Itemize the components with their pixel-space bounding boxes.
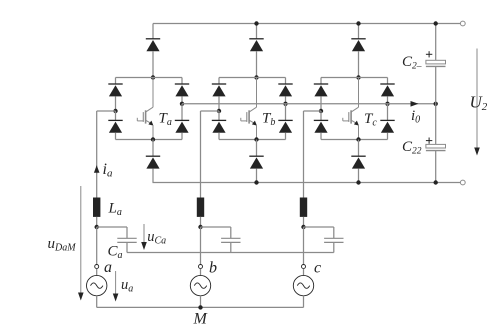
- wire bridge bottom a: [116, 139, 183, 141]
- bottom diode phase c: [351, 156, 365, 168]
- wire node to source c: [303, 269, 305, 276]
- junction cap branch top rail: [434, 21, 438, 25]
- wire lower-right diode to bridge bottom b: [285, 133, 287, 140]
- bridge diode upper-right phase b: [278, 84, 292, 96]
- junction leg c on bottom rail: [356, 180, 360, 184]
- arrow i0: [411, 101, 419, 107]
- node right mid b: [283, 102, 287, 106]
- wire source b to M rail: [200, 296, 202, 308]
- bottom diode phase a: [146, 156, 160, 168]
- wire mid bus to DC midpoint: [182, 103, 436, 105]
- wire upper-right diode to mid c: [387, 96, 389, 103]
- wire top diode to bridge node a: [152, 51, 154, 77]
- wire inductor to junction c: [303, 217, 305, 227]
- wire cap stub down a: [126, 227, 128, 238]
- terminal DC+: [460, 21, 465, 26]
- AC source phase c: [293, 275, 313, 295]
- inductor La: [93, 198, 100, 217]
- wire lower diode to bottom rail b: [256, 169, 258, 183]
- wire emitter to lower diode c: [358, 140, 360, 157]
- transistor Tc (IGBT): [343, 78, 359, 140]
- bridge diode upper-left phase c: [314, 84, 328, 96]
- wire left mid to feed c: [304, 110, 322, 112]
- junction source b on M rail: [198, 305, 202, 309]
- wire left branch upper stub c: [320, 78, 322, 85]
- AC source phase b: [190, 275, 210, 295]
- wire right branch upper stub a: [181, 78, 183, 85]
- inductor Lc: [300, 198, 307, 217]
- AC source phase a: [87, 275, 107, 295]
- svg-text:c: c: [314, 260, 321, 277]
- bridge diode lower-right phase c: [380, 120, 394, 132]
- wire cap to neutral bus b: [230, 242, 232, 252]
- node left mid a: [113, 109, 117, 113]
- filter capacitor Cc: [324, 238, 343, 242]
- capacitor C21: [426, 51, 446, 66]
- bridge diode lower-right phase b: [278, 120, 292, 132]
- wire lower diode to bottom rail a: [152, 169, 154, 183]
- wire emitter to lower diode a: [152, 140, 154, 157]
- wire junction to node a: [96, 227, 98, 264]
- top diode phase b: [249, 39, 263, 51]
- node emitter b: [254, 137, 258, 141]
- node b (input terminal): [199, 265, 203, 269]
- node bridge top a: [151, 75, 155, 79]
- wire feed vertical b: [200, 111, 202, 198]
- junction cap branch bottom rail: [434, 180, 438, 184]
- junction leg c on top rail: [356, 21, 360, 25]
- wire right mid to lower diode c: [387, 104, 389, 121]
- wire lower-left diode to bridge bottom a: [115, 133, 117, 140]
- wire inductor to junction a: [96, 217, 98, 227]
- node filter junction c: [301, 225, 305, 229]
- wire right branch upper stub c: [387, 78, 389, 85]
- top diode phase a: [146, 39, 160, 51]
- wire left branch upper stub b: [218, 78, 220, 85]
- node emitter c: [356, 137, 360, 141]
- wire left branch upper stub a: [115, 78, 117, 85]
- wire lower-right diode to bridge bottom a: [181, 133, 183, 140]
- wire cap stub horizontal a: [97, 226, 127, 228]
- wire feed vertical a: [96, 111, 98, 198]
- node bridge top b: [254, 75, 258, 79]
- junction leg b on top rail: [254, 21, 258, 25]
- wire left mid to lower diode a: [115, 111, 117, 121]
- bridge diode upper-left phase b: [212, 84, 226, 96]
- node right mid c: [385, 102, 389, 106]
- wire right branch upper stub b: [285, 78, 287, 85]
- terminal DC-: [460, 180, 465, 185]
- voltage arrow uCa: [141, 224, 147, 250]
- transistor Ta (IGBT): [137, 78, 153, 140]
- wire top diode to bridge node b: [256, 51, 258, 77]
- wire upper-left diode to mid c: [320, 96, 322, 111]
- wire cap stub horizontal c: [304, 226, 334, 228]
- wire left mid to feed b: [201, 110, 220, 112]
- filter capacitor Cb: [221, 238, 240, 242]
- wire lower diode to bottom rail c: [358, 169, 360, 183]
- wire top DC+ rail: [153, 23, 460, 25]
- bridge diode lower-left phase c: [314, 120, 328, 132]
- node left mid b: [217, 109, 221, 113]
- wire leg c rail to top diode: [358, 24, 360, 40]
- wire lower-right diode to bridge bottom c: [387, 133, 389, 140]
- bridge diode lower-left phase b: [212, 120, 226, 132]
- wire junction to node c: [303, 227, 305, 264]
- inductor Lb: [197, 198, 204, 217]
- wire emitter to lower diode b: [256, 140, 258, 157]
- wire C22 to bottom rail: [435, 151, 437, 183]
- wire right mid to lower diode b: [285, 104, 287, 121]
- svg-text:a: a: [104, 259, 112, 276]
- node DC midpoint: [434, 102, 438, 106]
- wire source a to M rail: [96, 296, 98, 308]
- node filter junction a: [95, 225, 99, 229]
- wire node to source a: [96, 269, 98, 276]
- junction leg b on bottom rail: [254, 180, 258, 184]
- wire left mid to lower diode c: [320, 111, 322, 121]
- wire inductor to junction b: [200, 217, 202, 227]
- wire source c to M rail: [303, 296, 305, 308]
- wire top diode to bridge node c: [358, 51, 360, 77]
- wire bridge top a: [116, 77, 183, 79]
- wire cap stub down b: [230, 227, 232, 238]
- wire cap stub horizontal b: [201, 226, 231, 228]
- wire cap stub down c: [333, 227, 335, 238]
- bridge diode upper-right phase c: [380, 84, 394, 96]
- node bridge top c: [356, 75, 360, 79]
- transistor Tb (IGBT): [241, 78, 257, 140]
- wire cap to neutral bus a: [126, 242, 128, 252]
- wire M rail: [97, 306, 304, 308]
- wire leg a rail to top diode: [152, 24, 154, 40]
- bridge diode lower-right phase a: [175, 120, 189, 132]
- node right mid a: [180, 102, 184, 106]
- voltage arrow uDaM: [78, 186, 84, 301]
- wire lower-left diode to bridge bottom c: [320, 133, 322, 140]
- wire leg b rail to top diode: [256, 24, 258, 40]
- node filter junction b: [198, 225, 202, 229]
- wire node to source b: [200, 269, 202, 276]
- filter capacitor Ca: [117, 238, 136, 242]
- wire upper-left diode to mid b: [218, 96, 220, 111]
- top diode phase c: [351, 39, 365, 51]
- node c (input terminal): [302, 265, 306, 269]
- wire midpoint to C22: [435, 104, 437, 145]
- wire cap to neutral bus c: [333, 242, 335, 252]
- wire junction to node b: [200, 227, 202, 264]
- svg-text:M: M: [193, 311, 209, 328]
- wire left mid to feed a: [97, 110, 116, 112]
- arrow ia: [94, 165, 100, 174]
- node a (input terminal): [95, 265, 99, 269]
- node emitter a: [151, 137, 155, 141]
- wire bridge bottom b: [219, 139, 286, 141]
- wire capacitor neutral bus: [127, 252, 334, 254]
- node left mid c: [319, 109, 323, 113]
- wire C21 to midpoint: [435, 66, 437, 103]
- voltage arrow ua: [113, 271, 119, 302]
- wire bottom DC- rail: [153, 182, 461, 184]
- wire upper-left diode to mid a: [115, 96, 117, 111]
- voltage arrow U2: [474, 49, 480, 156]
- wire left mid to lower diode b: [218, 111, 220, 121]
- wire top rail to C21: [435, 24, 437, 61]
- wire feed vertical c: [303, 111, 305, 198]
- svg-text:b: b: [209, 260, 217, 277]
- bridge diode lower-left phase a: [108, 120, 122, 132]
- bridge diode upper-left phase a: [108, 84, 122, 96]
- capacitor C22: [426, 138, 446, 151]
- wire lower-left diode to bridge bottom b: [218, 133, 220, 140]
- wire bridge top b: [219, 77, 286, 79]
- wire upper-right diode to mid b: [285, 96, 287, 103]
- wire bridge top c: [321, 77, 388, 79]
- wire upper-right diode to mid a: [181, 96, 183, 103]
- wire bridge bottom c: [321, 139, 388, 141]
- wire right mid to lower diode a: [181, 104, 183, 121]
- bridge diode upper-right phase a: [175, 84, 189, 96]
- bottom diode phase b: [249, 156, 263, 168]
